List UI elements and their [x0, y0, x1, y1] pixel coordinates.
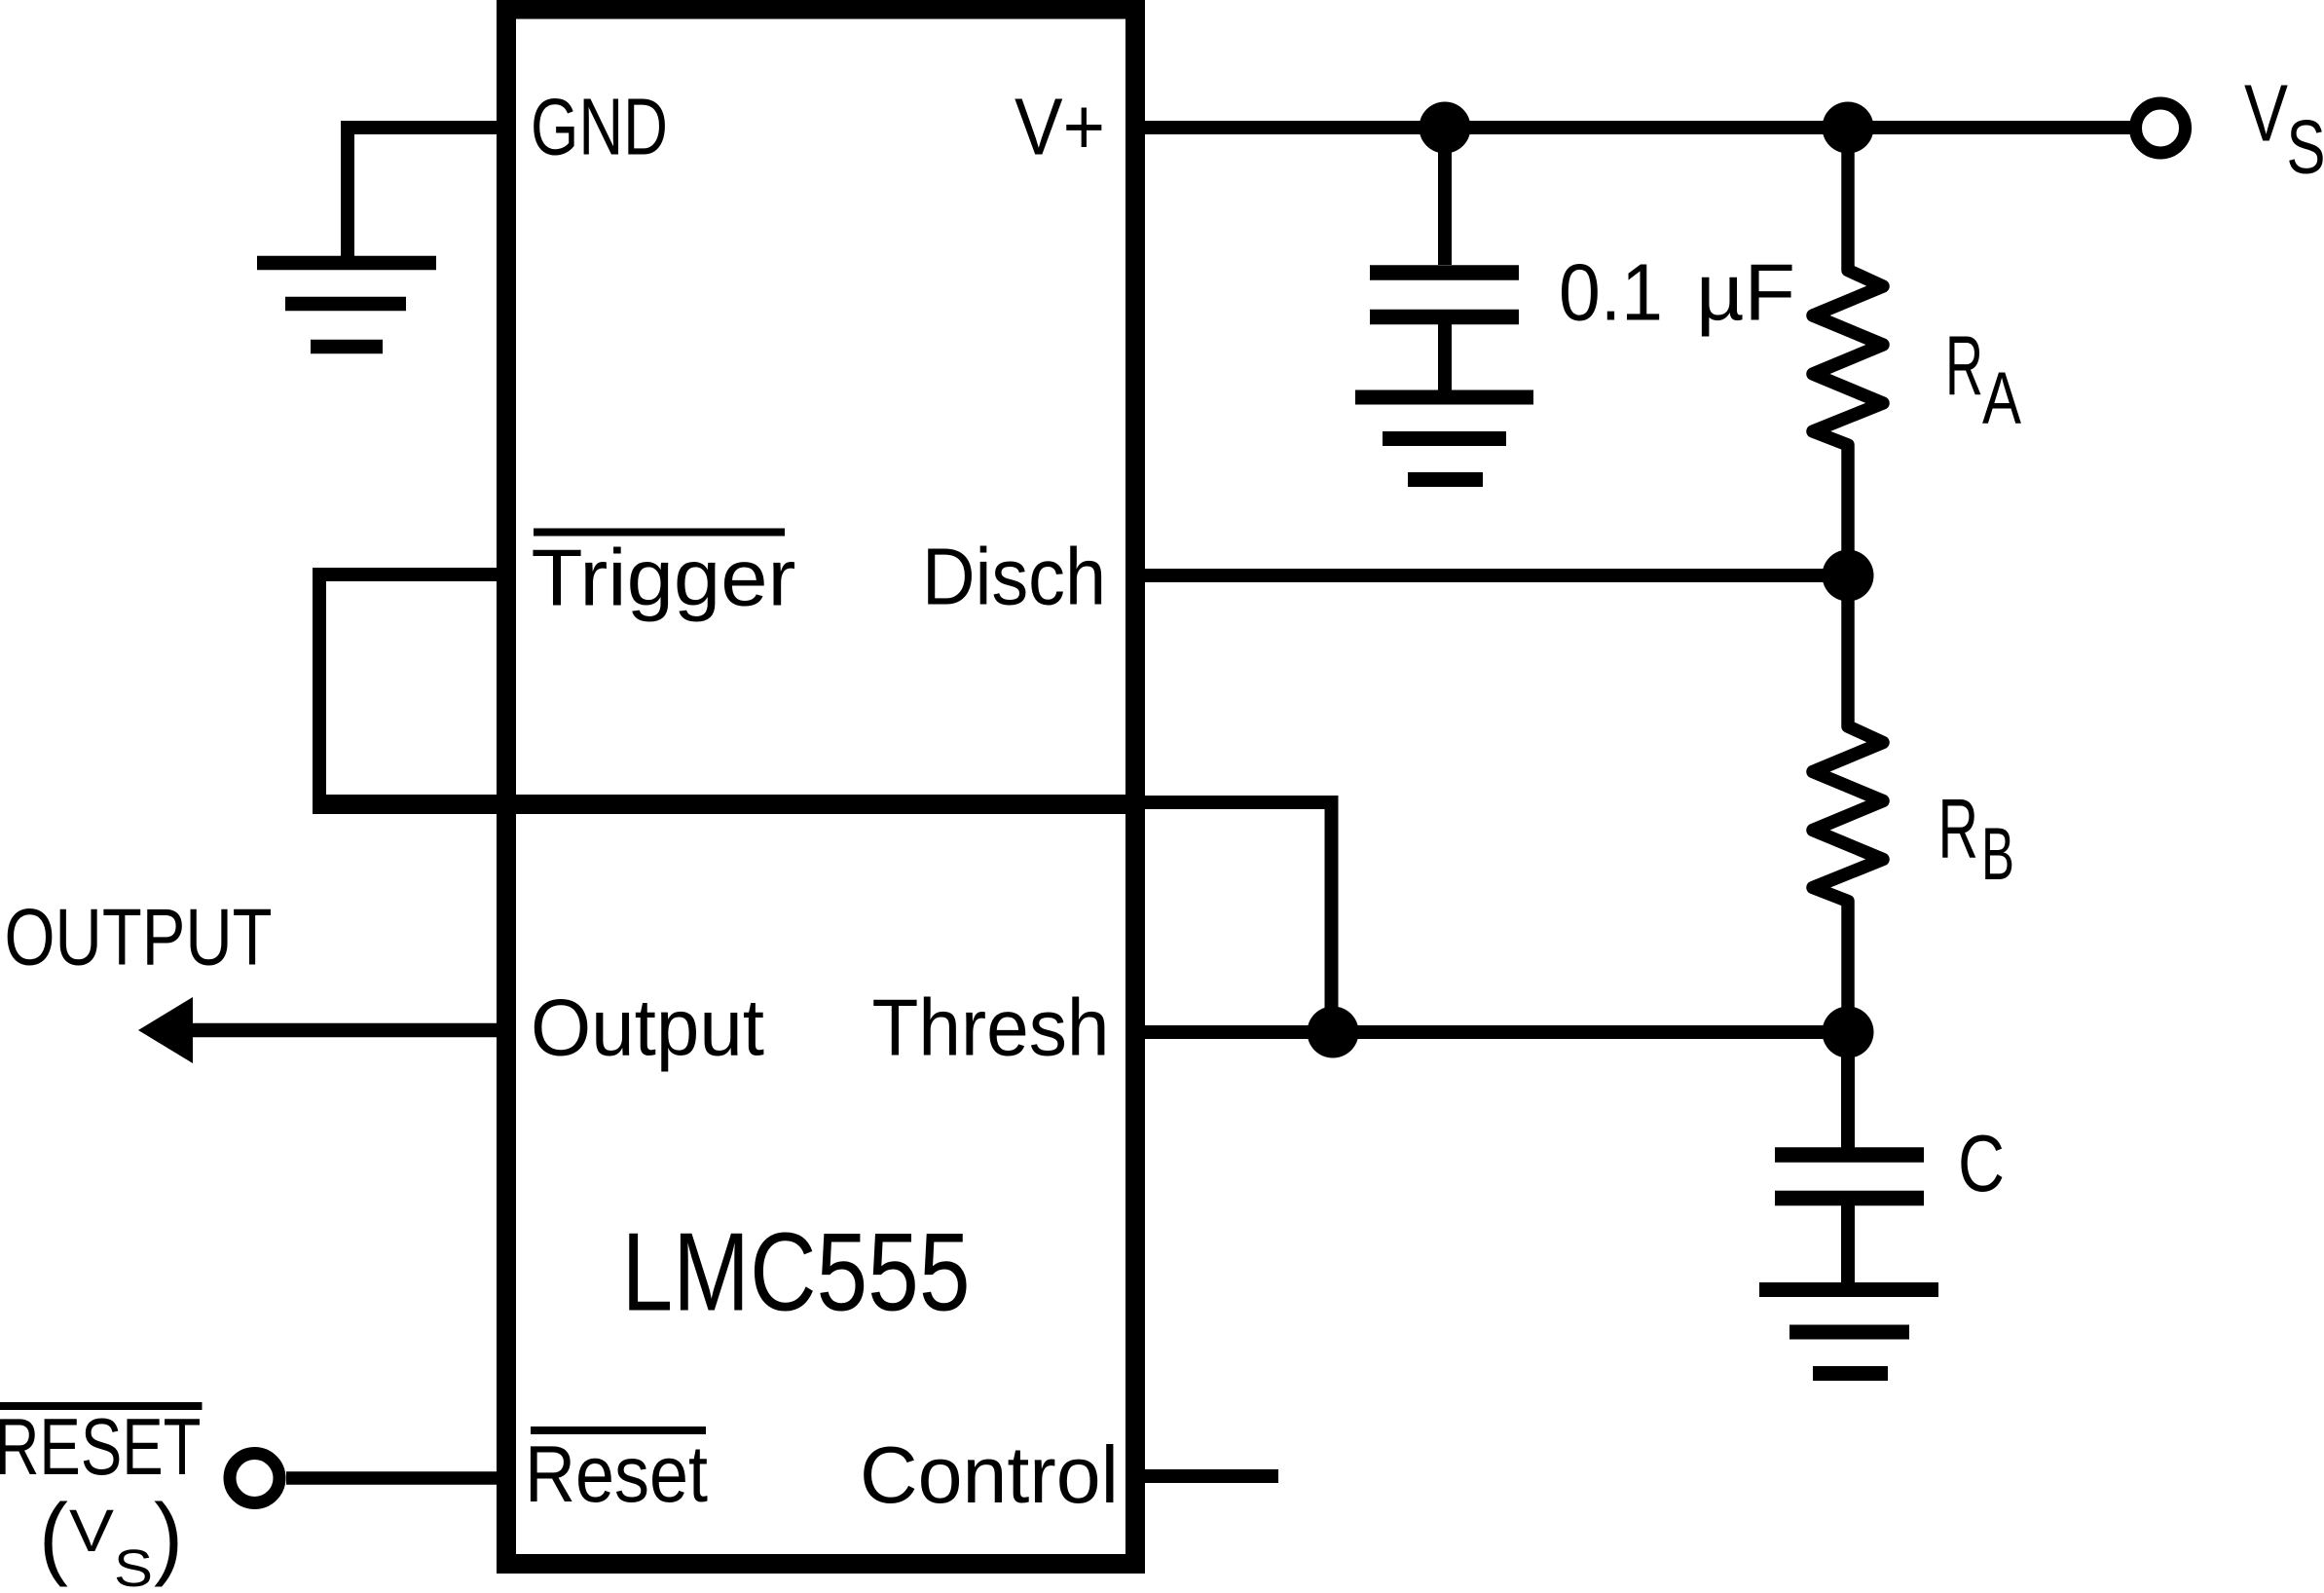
wire trigger link across (left stub): [313, 795, 506, 814]
svg-text:S: S: [114, 1539, 153, 1593]
svg-text:Thresh: Thresh: [872, 982, 1110, 1073]
svg-text:V+: V+: [1014, 82, 1105, 172]
wire Reset pin to RESET terminal: [286, 1471, 497, 1485]
ground symbol at bypass capacitor: [1355, 397, 1533, 480]
node junction V+ / bypass capacitor: [1420, 102, 1471, 154]
wire V+ node to bypass capacitor: [1438, 128, 1452, 265]
wire Thresh pin to RB/C node: [1145, 1025, 1848, 1039]
resistor RB (with leads): [1813, 575, 1883, 1032]
IC U1 LMC555 box lower section: [506, 804, 1135, 1564]
wire Trigger pin loop (left): [319, 574, 497, 804]
wire bypass capacitor to ground: [1438, 324, 1452, 390]
svg-text:A: A: [1982, 357, 2021, 440]
wire trigger link drop to Thresh node: [1325, 796, 1339, 1032]
svg-text:GND: GND: [531, 82, 668, 172]
wire Output pin to arrow: [191, 1023, 497, 1038]
ground symbol at GND pin: [257, 263, 436, 347]
wire GND pin to ground symbol: [348, 128, 506, 263]
svg-text:LMC555: LMC555: [622, 1211, 971, 1335]
node junction Disch / RA / RB: [1823, 550, 1874, 602]
node junction Thresh / RB / C: [1823, 1007, 1874, 1058]
svg-text:(: (: [39, 1485, 68, 1588]
svg-text:0.1: 0.1: [1559, 247, 1663, 338]
svg-text:C: C: [1958, 1118, 2005, 1208]
IC U1 LMC555 box upper section: [506, 10, 1135, 805]
svg-text:): ): [154, 1485, 183, 1588]
svg-text:RESET: RESET: [0, 1401, 202, 1492]
svg-text:µF: µF: [1696, 247, 1795, 338]
wire Control pin stub: [1145, 1469, 1278, 1483]
capacitor C1 0.1uF plates: [1370, 273, 1519, 317]
overline for Reset pin label: [531, 1426, 706, 1434]
terminal RESET (open circle): [230, 1454, 279, 1503]
wire trigger link across (right stub): [1135, 796, 1339, 809]
wire Disch pin to RA/RB node: [1145, 569, 1848, 582]
resistor RA (with leads): [1813, 128, 1883, 575]
svg-text:B: B: [1981, 813, 2014, 896]
svg-text:R: R: [1945, 319, 1983, 413]
wire capacitor C to ground: [1841, 1205, 1855, 1282]
svg-text:S: S: [2287, 104, 2324, 190]
svg-text:OUTPUT: OUTPUT: [5, 892, 273, 982]
wire V+ to Vs terminal: [1145, 121, 2135, 134]
wire Thresh node to capacitor C: [1841, 1032, 1855, 1148]
svg-text:Trigger: Trigger: [532, 533, 796, 623]
overline for Trigger pin label: [534, 529, 785, 537]
node junction V+ / resistor RA: [1823, 102, 1874, 154]
node junction Thresh wire / trigger link: [1308, 1007, 1359, 1058]
svg-text:V: V: [69, 1498, 114, 1564]
svg-text:Control: Control: [860, 1429, 1119, 1520]
terminal Vs (open circle): [2136, 103, 2186, 153]
ground symbol at capacitor C: [1759, 1290, 1938, 1374]
svg-text:Disch: Disch: [922, 532, 1106, 622]
capacitor C plates: [1775, 1155, 1924, 1199]
svg-text:Reset: Reset: [525, 1428, 708, 1519]
svg-text:Output: Output: [531, 982, 764, 1073]
svg-text:R: R: [1938, 783, 1979, 876]
arrowhead OUTPUT: [138, 997, 193, 1063]
overline for RESET net label: [0, 1402, 203, 1410]
svg-text:V: V: [2244, 68, 2288, 159]
